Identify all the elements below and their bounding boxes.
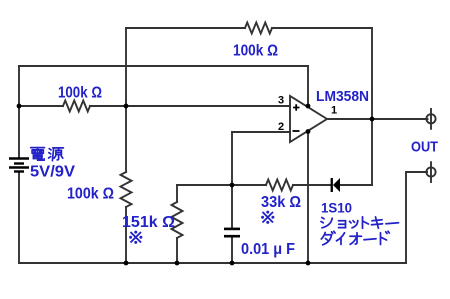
wire 151k bottom lead <box>176 238 178 263</box>
battery B1 plates <box>9 159 29 172</box>
resistor R-divider-high 100k zigzag <box>63 101 90 112</box>
wire op-amp output <box>327 118 428 120</box>
reference mark 1 (151k) <box>129 211 274 244</box>
katakana da <box>321 231 335 245</box>
wire capacitor bottom lead <box>231 237 233 263</box>
op-amp U1 triangle <box>290 96 327 142</box>
wire feedback right vertical <box>371 28 373 185</box>
svg-text:3: 3 <box>278 95 284 107</box>
katakana long vowel bar <box>386 223 399 224</box>
svg-text:100k Ω: 100k Ω <box>67 186 114 203</box>
wire ground rail bottom <box>19 262 406 264</box>
resistor R-151k vertical zigzag <box>172 202 183 238</box>
op-amp plus sign <box>293 104 300 131</box>
svg-text:100k Ω: 100k Ω <box>58 85 102 102</box>
terminal OUT+ stem <box>430 109 432 129</box>
wire 151k top lead <box>176 185 178 202</box>
op-amp minus sign <box>293 130 300 132</box>
wire 33k to diode <box>293 184 330 186</box>
svg-text:OUT: OUT <box>411 139 438 156</box>
diode D1 1S10 symbol <box>331 178 340 192</box>
svg-text:151k Ω: 151k Ω <box>122 214 175 231</box>
wire noninverting input rail left segment <box>19 105 63 107</box>
wire below divider resistor <box>125 207 127 263</box>
wire top feedback left segment <box>126 27 245 29</box>
wire OUT lower terminal to ground <box>406 172 427 263</box>
katakana small tsu <box>350 221 358 228</box>
katakana to <box>363 217 369 228</box>
junction node inverting/RC <box>230 183 235 188</box>
reference mark 2 (33k) <box>261 211 274 224</box>
wire pin 2 horizontal <box>232 131 290 133</box>
wire battery negative lead <box>18 172 20 263</box>
resistor R-divider-low 100k vertical zigzag <box>121 172 132 207</box>
katakana long vowel bar 2 <box>364 239 376 240</box>
katakana i <box>337 233 345 245</box>
junction node op-amp GND pin <box>306 129 311 134</box>
svg-text:1S10: 1S10 <box>321 200 352 216</box>
capacitor C1 plates <box>224 229 240 236</box>
junction node battery/divider rail <box>17 104 22 109</box>
wire inverting node vertical to cap <box>231 132 233 227</box>
junction node op-amp V+ pin <box>306 104 311 109</box>
svg-text:33k Ω: 33k Ω <box>261 194 301 211</box>
svg-text:LM358N: LM358N <box>316 88 369 105</box>
wire op-amp pin 4 down to ground rail <box>307 131 309 263</box>
wire noninverting input to pin 3 <box>90 105 290 107</box>
svg-text:5V/9V: 5V/9V <box>30 164 75 181</box>
katakana shi <box>321 218 332 228</box>
terminal OUT- stem <box>430 162 432 182</box>
resistor R-feedback 100k zigzag <box>245 23 272 34</box>
terminal OUT+ circle <box>426 114 435 123</box>
katakana ki <box>372 217 383 228</box>
katakana small yo <box>339 221 346 228</box>
terminal OUT- circle <box>426 167 435 176</box>
junction node noninverting input <box>124 104 129 109</box>
katakana o <box>350 233 362 245</box>
wire diode to feedback vertical <box>340 184 372 186</box>
wire top feedback right segment <box>272 27 372 29</box>
junction node ground/divider <box>124 261 129 266</box>
kanji label DENGEN (power source) <box>31 148 64 161</box>
resistor R-timing 33k zigzag <box>266 180 293 191</box>
wire feedback left vertical <box>125 28 127 172</box>
katakana label DAIO-DO (diode) <box>321 231 389 245</box>
svg-text:0.01 μ F: 0.01 μ F <box>241 241 295 258</box>
junction node ground/151k <box>175 261 180 266</box>
junction node output feedback <box>370 117 375 122</box>
svg-text:2: 2 <box>278 121 284 133</box>
katakana label SHOTTOKI- (Schottky) <box>321 217 399 228</box>
junction node ground/capacitor <box>230 261 235 266</box>
wire V+ rail horizontal <box>19 65 308 67</box>
wire RC node horizontal <box>177 184 266 186</box>
wire battery positive lead <box>18 66 20 157</box>
svg-text:100k Ω: 100k Ω <box>233 43 278 60</box>
katakana do <box>381 231 390 244</box>
svg-text:1: 1 <box>331 105 337 117</box>
wire V+ down to op-amp pin 8 <box>307 66 309 106</box>
junction node ground/op-amp <box>306 261 311 266</box>
